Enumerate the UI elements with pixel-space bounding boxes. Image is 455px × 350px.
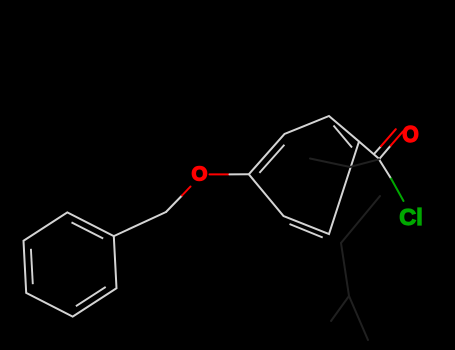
- bond O to ring red stub: [210, 173, 230, 175]
- C=O second line gray half: [374, 146, 381, 154]
- faint reflection artifacts bottom right: [310, 159, 380, 341]
- bond CH2 to O gray half: [166, 196, 182, 213]
- C=O double bond main line gray half: [379, 146, 391, 160]
- bond CH2 to O red half: [182, 187, 191, 196]
- svg-text:O: O: [192, 163, 208, 186]
- central benzene ring: [249, 116, 359, 234]
- benzyl phenyl ring: [24, 212, 117, 316]
- bond C-Cl green half: [391, 179, 403, 201]
- central ring inner aromatic lines: [259, 126, 352, 238]
- bond O to ring gray half: [230, 173, 249, 175]
- bond ring to acyl C: [359, 142, 379, 159]
- bond phenyl to CH2: [114, 212, 166, 236]
- bond C-Cl gray half: [379, 159, 391, 178]
- benzyl ring inner aromatic lines: [31, 222, 106, 306]
- C=O main line red half: [391, 131, 403, 145]
- svg-text:O: O: [402, 121, 419, 147]
- C=O second line red half: [381, 129, 396, 146]
- svg-text:Cl: Cl: [399, 204, 423, 230]
